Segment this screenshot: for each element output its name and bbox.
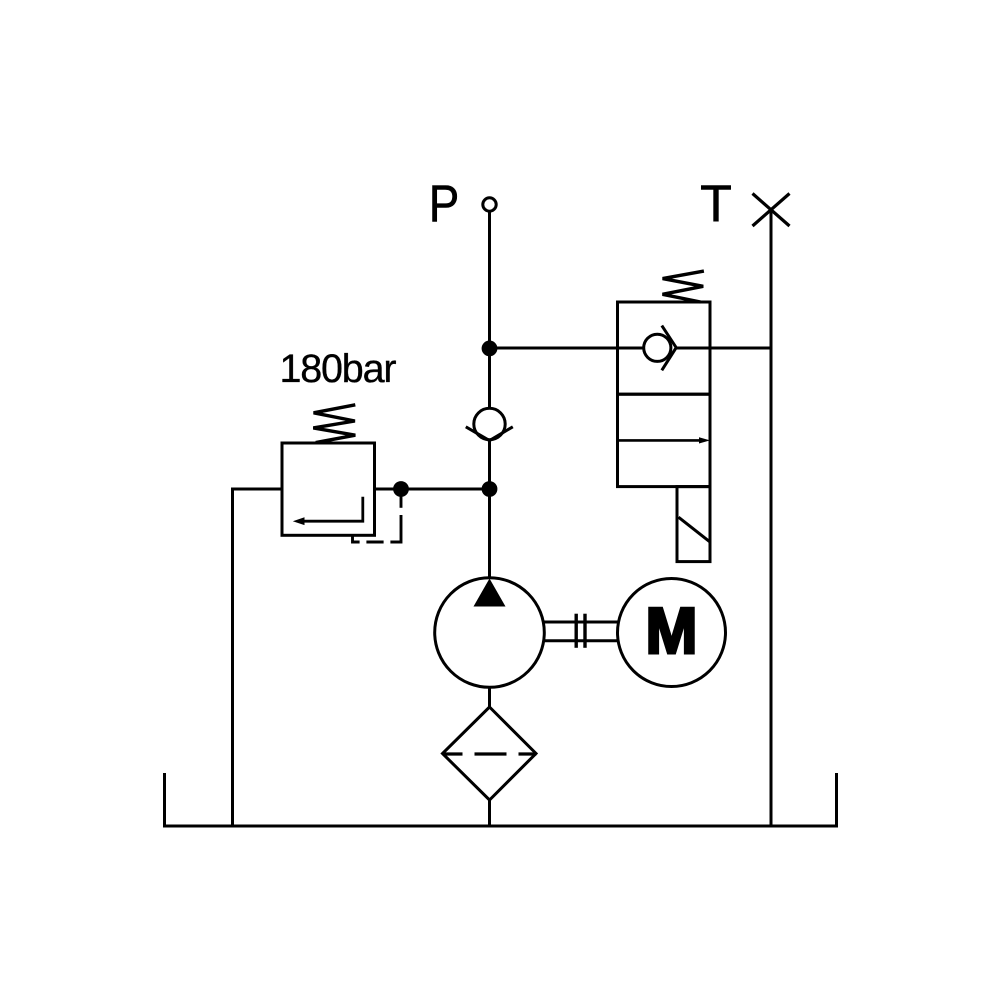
wire pump to suction filter (488, 687, 491, 707)
valve flow arrow in position 2 (618, 439, 702, 442)
solenoid coil diagonal (679, 517, 710, 542)
wire junction to solenoid valve and T line (490, 347, 644, 350)
drive shaft lines (544, 621, 618, 624)
relief valve spring (313, 405, 355, 443)
solenoid coil (677, 487, 710, 562)
wire junction down to check valve (488, 348, 491, 408)
pump P1 circle (435, 578, 545, 688)
wire junction down to pump (488, 489, 491, 579)
relief valve RV1 body (282, 443, 375, 535)
pump flow direction triangle (474, 579, 506, 607)
svg-text:M: M (646, 594, 698, 667)
plugged port T (X symbol) (753, 194, 790, 227)
wire valve check outlet to T line (676, 347, 771, 350)
relief valve flow arrow (303, 497, 363, 521)
filter mesh dashed line (443, 752, 537, 755)
wire from P down to junction (488, 211, 491, 348)
tank reservoir outline (165, 773, 837, 826)
svg-text:P: P (429, 176, 460, 234)
suction filter F1 diamond (443, 707, 537, 800)
svg-text:180bar: 180bar (280, 347, 397, 391)
wire T line down to tank (770, 210, 773, 826)
valve spring (663, 271, 704, 302)
check valve CV1 on pump line (474, 408, 505, 439)
pilot line (dashed) (353, 495, 402, 542)
wire filter to tank (488, 800, 491, 826)
wire check valve to junction (488, 441, 491, 489)
node junction P line / valve line (483, 342, 496, 355)
solenoid valve V1 position box 1 (618, 302, 711, 394)
solenoid valve V1 position box 2 (618, 394, 711, 486)
electric motor M1 circle (618, 579, 726, 687)
node pilot tap junction (395, 483, 408, 496)
svg-text:T: T (700, 176, 732, 234)
node main line junction (483, 483, 496, 496)
port P connection point (483, 198, 496, 211)
coupling bars (575, 614, 578, 648)
wire relief valve outlet to main line (375, 488, 490, 491)
check valve inside valve position 1 (644, 334, 671, 361)
wire relief valve to tank (233, 489, 283, 826)
